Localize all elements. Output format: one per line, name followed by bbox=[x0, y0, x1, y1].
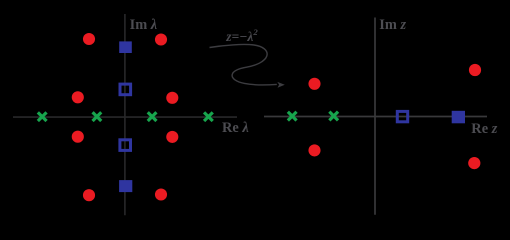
svg-text:Im λ: Im λ bbox=[130, 17, 158, 33]
svg-text:Re z: Re z bbox=[471, 121, 497, 137]
svg-text:Im z: Im z bbox=[379, 17, 406, 33]
svg-text:Re λ: Re λ bbox=[222, 120, 249, 136]
